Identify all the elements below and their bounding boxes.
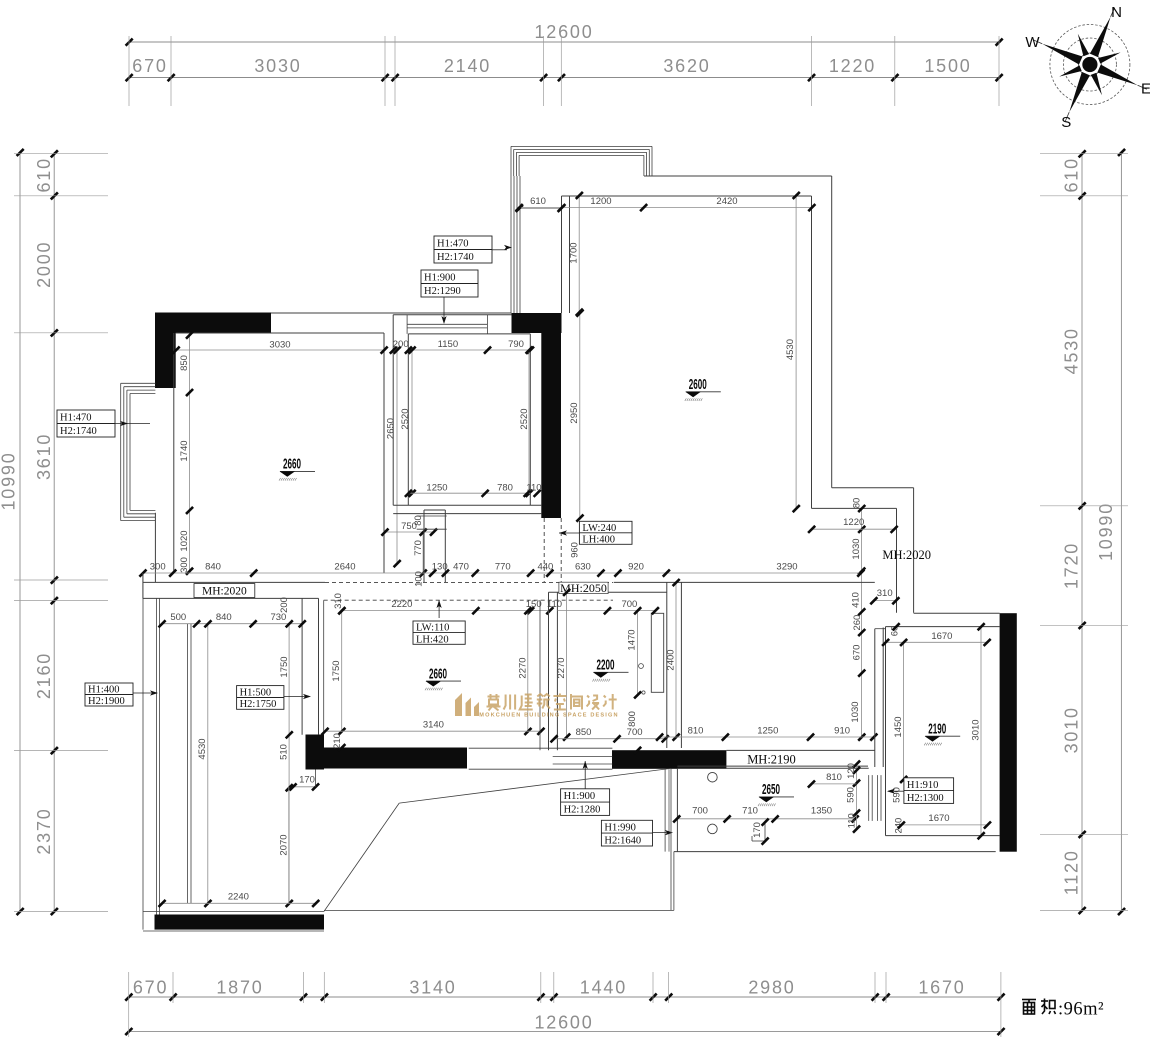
svg-text:LW:240: LW:240 (582, 523, 616, 534)
svg-text:2240: 2240 (228, 892, 249, 903)
svg-text:2270: 2270 (518, 657, 529, 678)
svg-text:H1:900: H1:900 (424, 273, 456, 284)
svg-text:2190: 2190 (928, 721, 946, 737)
svg-text:1220: 1220 (829, 56, 876, 76)
svg-text:1700: 1700 (569, 242, 580, 263)
svg-text:1870: 1870 (216, 978, 263, 998)
svg-text:LW:110: LW:110 (416, 623, 449, 634)
svg-text:H2:1280: H2:1280 (564, 805, 601, 816)
svg-text:2070: 2070 (279, 834, 290, 855)
svg-text:1720: 1720 (1062, 542, 1082, 589)
svg-text:840: 840 (205, 562, 221, 573)
svg-text:710: 710 (742, 806, 758, 817)
svg-text:H1:400: H1:400 (88, 685, 120, 696)
svg-text:MOKCHUEN BUILDING SPACE DESIGN: MOKCHUEN BUILDING SPACE DESIGN (479, 713, 618, 719)
svg-text:H1:990: H1:990 (604, 823, 636, 834)
svg-text:W: W (1025, 34, 1040, 51)
svg-text:LH:420: LH:420 (416, 634, 449, 645)
svg-text:H2:1300: H2:1300 (907, 793, 944, 804)
svg-text:150: 150 (526, 599, 542, 610)
svg-text:1150: 1150 (438, 339, 458, 350)
svg-text:2520: 2520 (400, 408, 411, 429)
svg-text:3290: 3290 (776, 562, 797, 573)
svg-text:470: 470 (453, 562, 469, 573)
svg-text:630: 630 (575, 562, 591, 573)
svg-text:610: 610 (34, 157, 54, 192)
svg-text:H2:1640: H2:1640 (604, 835, 641, 846)
svg-text:2640: 2640 (334, 562, 355, 573)
svg-text:960: 960 (570, 542, 581, 558)
svg-text:3010: 3010 (1062, 706, 1082, 753)
svg-text:2220: 2220 (391, 599, 412, 610)
svg-text:2000: 2000 (34, 241, 54, 288)
svg-text:2400: 2400 (666, 649, 677, 670)
svg-text:120: 120 (846, 763, 857, 779)
svg-text:1750: 1750 (279, 656, 290, 677)
svg-text:670: 670 (133, 978, 168, 998)
svg-text:170: 170 (299, 775, 315, 786)
svg-text:810: 810 (826, 772, 842, 783)
svg-text:H1:910: H1:910 (907, 780, 939, 791)
svg-text:440: 440 (537, 562, 553, 573)
svg-text:H2:1750: H2:1750 (240, 699, 277, 710)
svg-text:3010: 3010 (971, 719, 982, 740)
svg-text:S: S (1061, 114, 1071, 131)
svg-text:850: 850 (576, 727, 592, 738)
svg-text:2370: 2370 (34, 807, 54, 854)
svg-text:800: 800 (627, 711, 638, 727)
svg-text:10990: 10990 (1096, 502, 1116, 561)
svg-text:1440: 1440 (580, 978, 627, 998)
svg-text:700: 700 (692, 806, 708, 817)
svg-text:1350: 1350 (811, 806, 832, 817)
svg-text:2980: 2980 (748, 978, 795, 998)
svg-text:3030: 3030 (269, 340, 290, 351)
svg-text:2270: 2270 (556, 657, 567, 678)
svg-text:310: 310 (333, 593, 344, 609)
svg-text:3620: 3620 (663, 56, 710, 76)
svg-text:110: 110 (526, 483, 541, 494)
svg-text:670: 670 (132, 56, 167, 76)
svg-text:2520: 2520 (519, 408, 530, 429)
svg-text:80: 80 (852, 498, 863, 509)
svg-text:2650: 2650 (386, 418, 397, 439)
svg-text:1450: 1450 (893, 716, 904, 737)
svg-text:H2:1290: H2:1290 (424, 286, 461, 297)
svg-text:920: 920 (628, 562, 644, 573)
svg-text:N: N (1111, 4, 1122, 21)
svg-text:310: 310 (877, 588, 893, 599)
svg-text:MH:2020: MH:2020 (202, 586, 247, 598)
svg-text:H1:470: H1:470 (437, 239, 469, 250)
svg-text:1470: 1470 (627, 629, 638, 650)
svg-text:H1:900: H1:900 (564, 791, 596, 802)
svg-text:2950: 2950 (569, 402, 580, 423)
svg-text:410: 410 (851, 592, 862, 608)
svg-text:100: 100 (414, 571, 425, 587)
svg-text:2140: 2140 (444, 56, 491, 76)
svg-text:3610: 3610 (34, 433, 54, 480)
svg-text:2660: 2660 (429, 666, 447, 682)
svg-text:610: 610 (1062, 157, 1082, 192)
svg-text:840: 840 (216, 612, 232, 623)
svg-text:4530: 4530 (1062, 327, 1082, 374)
svg-text:H2:1740: H2:1740 (60, 426, 97, 437)
svg-text:200: 200 (393, 339, 409, 350)
svg-text:810: 810 (688, 726, 704, 737)
svg-text:700: 700 (621, 599, 637, 610)
svg-text:H2:1900: H2:1900 (88, 696, 125, 707)
svg-text:1500: 1500 (924, 56, 971, 76)
svg-text:110: 110 (547, 599, 562, 610)
svg-text:780: 780 (497, 483, 513, 494)
svg-text:300: 300 (179, 557, 190, 573)
svg-text:LH:400: LH:400 (582, 534, 615, 545)
svg-text:MH:2190: MH:2190 (747, 753, 796, 767)
svg-text:80: 80 (413, 515, 424, 526)
svg-text:1030: 1030 (851, 538, 862, 559)
svg-text:910: 910 (834, 726, 850, 737)
svg-text:1250: 1250 (757, 726, 778, 737)
svg-text:610: 610 (530, 196, 546, 207)
svg-text:3140: 3140 (409, 978, 456, 998)
svg-text:1740: 1740 (179, 440, 190, 461)
svg-text:790: 790 (508, 339, 524, 350)
svg-text:1670: 1670 (918, 978, 965, 998)
svg-text:H1:470: H1:470 (60, 413, 92, 424)
svg-text:1030: 1030 (850, 701, 861, 722)
svg-text:1250: 1250 (426, 483, 447, 494)
svg-text:1670: 1670 (931, 631, 952, 642)
svg-text:10990: 10990 (0, 451, 19, 510)
svg-text:1020: 1020 (179, 530, 190, 551)
svg-text:1120: 1120 (1062, 849, 1082, 895)
svg-text:3140: 3140 (423, 720, 444, 731)
svg-text:2650: 2650 (762, 782, 780, 798)
svg-text:590: 590 (846, 787, 857, 803)
svg-text:130: 130 (432, 562, 448, 573)
svg-text::96m²: :96m² (1058, 1000, 1104, 1020)
svg-text:1220: 1220 (843, 517, 864, 528)
svg-text:1200: 1200 (590, 196, 611, 207)
svg-text:MH:2020: MH:2020 (882, 548, 931, 562)
svg-text:2600: 2600 (689, 377, 707, 393)
svg-text:110: 110 (847, 813, 858, 828)
svg-text:260: 260 (852, 615, 863, 631)
svg-text:850: 850 (179, 355, 190, 371)
svg-text:4530: 4530 (197, 738, 208, 759)
svg-text:670: 670 (852, 645, 863, 661)
svg-text:200: 200 (279, 597, 290, 613)
svg-text:H1:500: H1:500 (240, 687, 272, 698)
svg-text:510: 510 (279, 744, 290, 760)
svg-text:2420: 2420 (716, 196, 737, 207)
svg-text:300: 300 (150, 562, 166, 573)
svg-text:1750: 1750 (331, 660, 342, 681)
svg-text:2160: 2160 (34, 652, 54, 699)
svg-text:1670: 1670 (928, 813, 949, 824)
svg-text:500: 500 (170, 612, 186, 623)
svg-text:770: 770 (495, 562, 511, 573)
svg-text:12600: 12600 (534, 1013, 593, 1033)
svg-text:2660: 2660 (283, 457, 301, 473)
svg-text:770: 770 (413, 540, 424, 556)
svg-text:E: E (1141, 81, 1150, 98)
svg-text:3030: 3030 (254, 56, 301, 76)
svg-text:4530: 4530 (785, 339, 796, 360)
svg-text:700: 700 (627, 727, 643, 738)
svg-text:H2:1740: H2:1740 (437, 252, 474, 263)
svg-text:2200: 2200 (597, 658, 615, 674)
